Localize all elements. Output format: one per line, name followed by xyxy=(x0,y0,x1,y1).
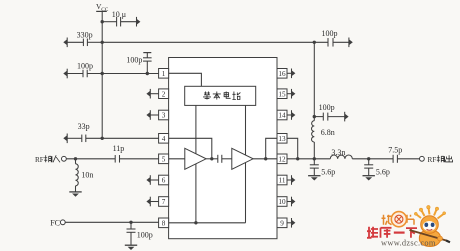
terminal RF output xyxy=(420,155,453,164)
svg-text:11: 11 xyxy=(279,177,286,185)
pin 2 box xyxy=(159,89,169,99)
wire pin4 internal L xyxy=(169,138,212,159)
pin bypass arrow right xyxy=(287,110,295,120)
capacitor C8 100p at FC xyxy=(127,222,153,245)
svg-text:3.3n: 3.3n xyxy=(331,148,345,157)
pin 4 box xyxy=(159,134,169,144)
terminal RF input xyxy=(35,155,66,164)
svg-text:6.8n: 6.8n xyxy=(321,128,335,137)
node rail / C10 branch xyxy=(313,115,316,118)
wire right rail upper xyxy=(313,42,315,120)
svg-text:2: 2 xyxy=(162,90,166,98)
pin 11 box xyxy=(277,175,287,185)
wire to C1 10u xyxy=(102,21,116,23)
pin 15 box xyxy=(277,89,287,99)
node rail / output line xyxy=(313,157,316,160)
wire pin5 to amp1 xyxy=(169,158,185,160)
svg-text:100p: 100p xyxy=(137,230,153,239)
node Vcc/10u junction xyxy=(101,20,104,23)
wire pin12 output line xyxy=(287,158,314,160)
svg-text:33p: 33p xyxy=(78,122,90,131)
svg-text:14: 14 xyxy=(278,112,286,120)
pin bypass arrow right xyxy=(287,218,295,228)
node rail end / pin4 line xyxy=(101,137,104,140)
node pin1-line/C5 junction xyxy=(146,72,149,75)
capacitor C12 5.6p shunt 2 xyxy=(364,159,390,177)
wire pin13 inner stub xyxy=(266,138,277,159)
capacitor C7 11p xyxy=(113,144,159,162)
svg-text:15: 15 xyxy=(278,90,286,98)
wire amp1 output xyxy=(206,158,218,160)
wire to amp2 xyxy=(222,158,232,160)
pin bypass arrow left xyxy=(146,89,158,99)
ground below C11 xyxy=(308,175,320,177)
pin 1 box xyxy=(159,69,169,79)
node amp1out/pin4 junction xyxy=(210,157,213,160)
svg-text:10: 10 xyxy=(278,198,286,206)
svg-text:100p: 100p xyxy=(322,29,338,38)
node top net / right rail xyxy=(313,41,316,44)
capacitor C10 100p right-mid xyxy=(314,103,348,121)
svg-text:12: 12 xyxy=(278,156,286,164)
svg-text:100p: 100p xyxy=(319,103,335,112)
capacitor C11 5.6p shunt 1 xyxy=(310,159,335,177)
node RFin/L1 junction xyxy=(74,157,77,160)
capacitor C9 coupling internal xyxy=(217,155,219,163)
wire internal bias line A xyxy=(195,105,197,222)
pin 9 box xyxy=(277,218,287,228)
op-amp A1 xyxy=(185,148,206,169)
watermark dzsc logo text xyxy=(367,212,417,238)
svg-text:7: 7 xyxy=(162,198,166,206)
capacitor C2 330p xyxy=(63,30,102,47)
wire internal bias line B xyxy=(245,105,247,222)
watermark mascot xyxy=(410,205,451,246)
capacitor C13 7.5p xyxy=(388,146,419,163)
svg-text:9: 9 xyxy=(280,220,284,228)
pin 8 box xyxy=(159,218,169,228)
wire output to L3 xyxy=(314,158,330,160)
pin bypass arrow right xyxy=(287,89,295,99)
capacitor C6 33p xyxy=(63,122,158,143)
wire Vcc rail vertical xyxy=(101,22,103,139)
pin bypass arrow left xyxy=(146,175,158,185)
node rail/330p junction xyxy=(101,41,104,44)
pin 16 box xyxy=(277,69,287,79)
wire pin8 internal line xyxy=(169,222,246,224)
inductor L1 10n xyxy=(76,159,94,192)
svg-text:7.5p: 7.5p xyxy=(388,146,402,155)
pin bypass arrow right xyxy=(287,197,295,207)
svg-text:13: 13 xyxy=(278,135,286,143)
pin 7 box xyxy=(159,197,169,207)
svg-text:16: 16 xyxy=(278,70,286,78)
wire L3 to C13 xyxy=(352,158,393,160)
svg-text:5.6p: 5.6p xyxy=(321,167,335,176)
pin 13 box xyxy=(277,134,287,144)
pin 10 box xyxy=(277,197,287,207)
svg-text:RF: RF xyxy=(428,156,437,164)
pin 12 box xyxy=(277,154,287,164)
terminal FC xyxy=(50,218,65,227)
svg-text:330p: 330p xyxy=(77,30,93,39)
pin bypass arrow right xyxy=(287,175,295,185)
node bias A / pin8 line xyxy=(194,221,197,224)
capacitor C1 10u bypass xyxy=(112,10,141,27)
wire RF input line xyxy=(66,158,115,160)
svg-text:FC: FC xyxy=(50,218,60,227)
pin bypass arrow right xyxy=(287,69,295,79)
svg-text:3: 3 xyxy=(162,112,166,120)
svg-text:10 μ: 10 μ xyxy=(112,10,126,19)
wire pin13 outer loop xyxy=(287,138,298,159)
svg-text:www.dzsc.com: www.dzsc.com xyxy=(381,239,436,248)
node FC/C8 junction xyxy=(129,221,132,224)
pin 3 box xyxy=(159,110,169,120)
wire FC to pin8 xyxy=(65,221,158,223)
svg-text:100p: 100p xyxy=(126,56,142,65)
block 基本电路 (basic circuit) xyxy=(185,86,256,105)
svg-text:8: 8 xyxy=(162,220,166,228)
ground below C12 xyxy=(363,175,375,177)
pin bypass arrow left xyxy=(146,110,158,120)
pin bypass arrow left xyxy=(146,197,158,207)
svg-text:5: 5 xyxy=(162,156,166,164)
pin 14 box xyxy=(277,110,287,120)
power Vcc terminal xyxy=(96,2,109,22)
capacitor C3 100p top-right xyxy=(322,29,353,47)
node rail/pin1 junction xyxy=(101,72,104,75)
capacitor C4 100p left xyxy=(63,61,158,78)
op-amp IC U1 body xyxy=(169,58,277,239)
wire pin1 to internal block xyxy=(169,73,202,86)
svg-text:RF: RF xyxy=(35,156,44,164)
svg-text:100p: 100p xyxy=(77,61,93,70)
inductor L2 6.8n xyxy=(312,121,335,159)
ground below L1 xyxy=(69,191,81,193)
svg-text:5.6p: 5.6p xyxy=(376,167,390,176)
wire top net to right xyxy=(102,41,328,43)
pin 5 box xyxy=(159,154,169,164)
capacitor C5 100p vertical xyxy=(126,53,151,74)
svg-text:1: 1 xyxy=(162,70,166,78)
svg-text:10n: 10n xyxy=(81,171,93,180)
svg-text:4: 4 xyxy=(162,135,166,143)
node output / C12 junction xyxy=(367,157,370,160)
inductor L3 3.3n xyxy=(330,148,352,159)
ground below C8 xyxy=(125,244,137,246)
node pin13 loop / output xyxy=(296,157,299,160)
svg-text:6: 6 xyxy=(162,177,166,185)
svg-text:CC: CC xyxy=(101,7,109,13)
node amp2out/pin13 junction xyxy=(264,157,267,160)
op-amp A2 xyxy=(232,148,253,169)
svg-text:11p: 11p xyxy=(113,144,125,153)
wire amp2 output to pin12 xyxy=(253,158,277,160)
pin 6 box xyxy=(159,175,169,185)
